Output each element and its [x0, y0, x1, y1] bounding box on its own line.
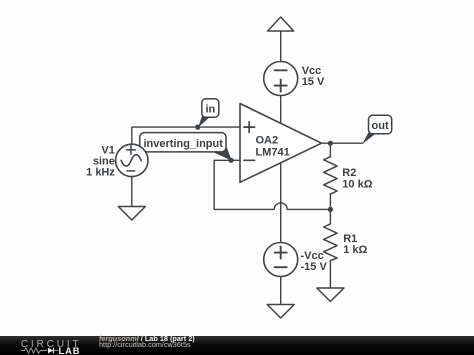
svg-text:R1: R1	[343, 233, 357, 245]
svg-text:1 kHz: 1 kHz	[86, 166, 115, 178]
svg-text:in: in	[206, 104, 216, 116]
svg-text:10 kΩ: 10 kΩ	[342, 178, 372, 190]
svg-text:OA2: OA2	[256, 135, 279, 147]
svg-text:LM741: LM741	[256, 146, 290, 158]
svg-text:15 V: 15 V	[302, 76, 325, 88]
svg-text:-15 V: -15 V	[301, 261, 328, 273]
svg-text:1 kΩ: 1 kΩ	[343, 244, 367, 256]
svg-text:R2: R2	[342, 167, 356, 179]
svg-text:out: out	[372, 120, 389, 132]
svg-text:LAB: LAB	[59, 345, 81, 355]
svg-text:inverting_input: inverting_input	[143, 138, 223, 150]
